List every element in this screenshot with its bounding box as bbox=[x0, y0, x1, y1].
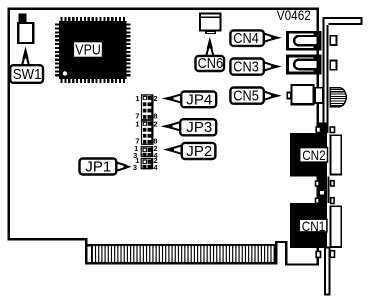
svg-text:SW1: SW1 bbox=[13, 66, 42, 83]
connector CN1 body bbox=[290, 203, 327, 248]
switch SW1 body bbox=[18, 14, 33, 44]
IC U1 pin-1 dot bbox=[63, 71, 67, 75]
label JP1 bbox=[80, 158, 117, 175]
bracket screw tabs bbox=[316, 127, 335, 257]
label JP3 bbox=[180, 119, 216, 136]
svg-text:VPU: VPU bbox=[75, 41, 101, 58]
svg-text:1: 1 bbox=[135, 119, 139, 128]
IC U1 (VPU) body bbox=[59, 21, 127, 79]
label CN4 bbox=[230, 30, 263, 47]
D-sub shell of CN2 bbox=[330, 135, 341, 174]
svg-text:V0462: V0462 bbox=[277, 8, 311, 23]
leader arrow to JP1 bbox=[116, 163, 131, 171]
edge connector gold fingers bbox=[86, 244, 277, 264]
svg-text:CN3: CN3 bbox=[233, 59, 258, 76]
edge connector top bar bbox=[86, 244, 277, 246]
label CN1 bbox=[299, 218, 327, 234]
connector CN3 (RCA jack) bbox=[288, 55, 337, 75]
white notch on spine bbox=[320, 191, 324, 195]
IC U1 (VPU) pins bbox=[55, 17, 130, 83]
svg-text:CN2: CN2 bbox=[302, 147, 326, 163]
board outline (PCB edge) bbox=[9, 9, 318, 265]
svg-text:3: 3 bbox=[133, 163, 137, 172]
leader arrow to JP4 bbox=[162, 94, 182, 102]
leader arrow to CN3 bbox=[264, 62, 282, 70]
svg-text:1: 1 bbox=[135, 94, 139, 103]
connector CN5 (RF modulator jack) bbox=[287, 85, 346, 107]
label SW1 bbox=[10, 65, 43, 83]
connector CN4 (RCA jack) bbox=[288, 31, 337, 51]
leader arrow to CN5 bbox=[264, 91, 282, 100]
svg-text:CN6: CN6 bbox=[198, 55, 224, 72]
svg-text:JP1: JP1 bbox=[85, 158, 111, 175]
label JP2 bbox=[182, 143, 216, 160]
pin numbers of jumpers bbox=[133, 94, 159, 172]
svg-text:JP2: JP2 bbox=[186, 143, 212, 160]
jumper JP1 block bbox=[141, 158, 154, 169]
leader arrow to JP3 bbox=[161, 122, 181, 131]
svg-text:CN1: CN1 bbox=[302, 218, 326, 234]
svg-text:2: 2 bbox=[153, 119, 157, 128]
label CN3 bbox=[230, 59, 263, 76]
leader arrow to CN6 bbox=[206, 37, 214, 57]
D-sub shell of CN1 bbox=[330, 206, 341, 247]
svg-text:2: 2 bbox=[153, 94, 157, 103]
svg-text:JP4: JP4 bbox=[186, 91, 212, 108]
jumper JP3 block bbox=[141, 120, 154, 145]
jumper JP2 block bbox=[141, 146, 154, 157]
label JP4 bbox=[181, 91, 216, 108]
leader arrow to SW1 bbox=[22, 46, 30, 66]
label CN5 bbox=[230, 88, 263, 105]
svg-text:CN5: CN5 bbox=[233, 88, 258, 105]
mounting bracket bbox=[323, 17, 363, 295]
label CN6 bbox=[196, 55, 225, 72]
label VPU bbox=[74, 41, 103, 58]
jumper JP4 block bbox=[141, 94, 154, 120]
label CN2 bbox=[300, 147, 328, 163]
svg-text:CN4: CN4 bbox=[233, 30, 258, 47]
leader arrow to CN4 bbox=[264, 33, 282, 42]
svg-text:JP3: JP3 bbox=[186, 119, 212, 136]
connector CN6 body bbox=[200, 13, 221, 34]
leader arrow to JP2 bbox=[163, 146, 182, 154]
connector CN2 body bbox=[290, 133, 327, 176]
connector spine strip bbox=[319, 122, 327, 248]
